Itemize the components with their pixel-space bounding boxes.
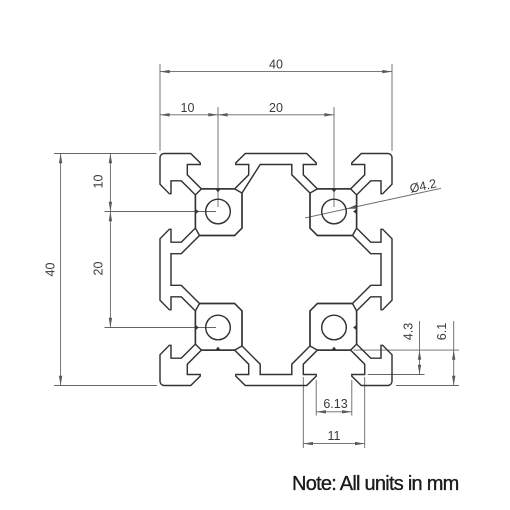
extension line right edge (x=392) [391,64,393,151]
dimension line 40 (left) [60,154,62,386]
svg-text:40: 40 [44,263,58,277]
dimension line 11 [303,443,364,445]
screw hole bottom-left (d4.2) [206,315,231,340]
svg-text:20: 20 [92,262,106,276]
ceiling notch right slot [354,325,357,329]
extension line throat right (x=351.8) [351,380,353,416]
dimension line 6.1 [453,321,455,386]
svg-text:40: 40 [269,58,283,72]
central cross cavity [171,165,381,375]
leader line for hole diameter [305,188,441,218]
extension line slot ceiling (y=350.1) [354,349,459,351]
extension line wall right (x=364.7) [364,377,366,448]
extension line bottom edge (y=385.5) [54,385,157,387]
extension line hole3 (y=327.5) [105,327,217,329]
ceiling notch right slot [354,209,357,213]
svg-text:Note: All units in mm: Note: All units in mm [292,473,459,495]
screw boss octagon bottom-right [310,304,357,351]
dimension line 4.3 [419,321,421,375]
dimension line 40 (top) [160,71,392,73]
screw boss octagon top-right [310,189,357,236]
extension line top edge (y=153.5) [54,153,157,155]
screw hole top-right (d4.2) [322,199,347,224]
ceiling notch bottom slot [216,347,220,350]
ceiling notch top slot [332,189,336,192]
svg-text:6.13: 6.13 [323,397,347,411]
extension line hole1 (x=218) [217,107,219,207]
screw boss octagon bottom-left [195,304,242,351]
svg-text:4.3: 4.3 [402,323,416,340]
extension line hole2 (x=334) [333,107,335,207]
extension line hole1 (y=211.5) [105,211,217,213]
svg-text:10: 10 [181,101,195,115]
ceiling notch left slot [195,325,198,329]
dimension line 6.13 [316,411,352,413]
screw boss octagon top-left [195,189,242,236]
screw hole top-left (d4.2) [206,199,231,224]
svg-text:20: 20 [269,101,283,115]
svg-text:6.1: 6.1 [435,323,449,340]
extension line claw underside (y=374.5) [368,374,425,376]
extension line bottom surface right (y=385.5) [396,385,459,387]
ceiling notch left slot [195,209,198,213]
extension line wall left (x=303.3) [302,377,304,448]
ceiling notch bottom slot [332,347,336,350]
screw hole bottom-right (d4.2) [322,315,347,340]
aluminum extrusion outer boundary with 8 T-slots and corner tabs [160,154,392,386]
extension line left edge (x=160) [159,64,161,151]
svg-text:11: 11 [328,429,341,443]
svg-text:10: 10 [92,175,106,189]
dimension line 10-20 (top) [160,114,334,116]
extension line throat left (x=316.2) [315,380,317,416]
ceiling notch top slot [216,189,220,192]
dimension line 10-20 (left) [109,154,111,328]
